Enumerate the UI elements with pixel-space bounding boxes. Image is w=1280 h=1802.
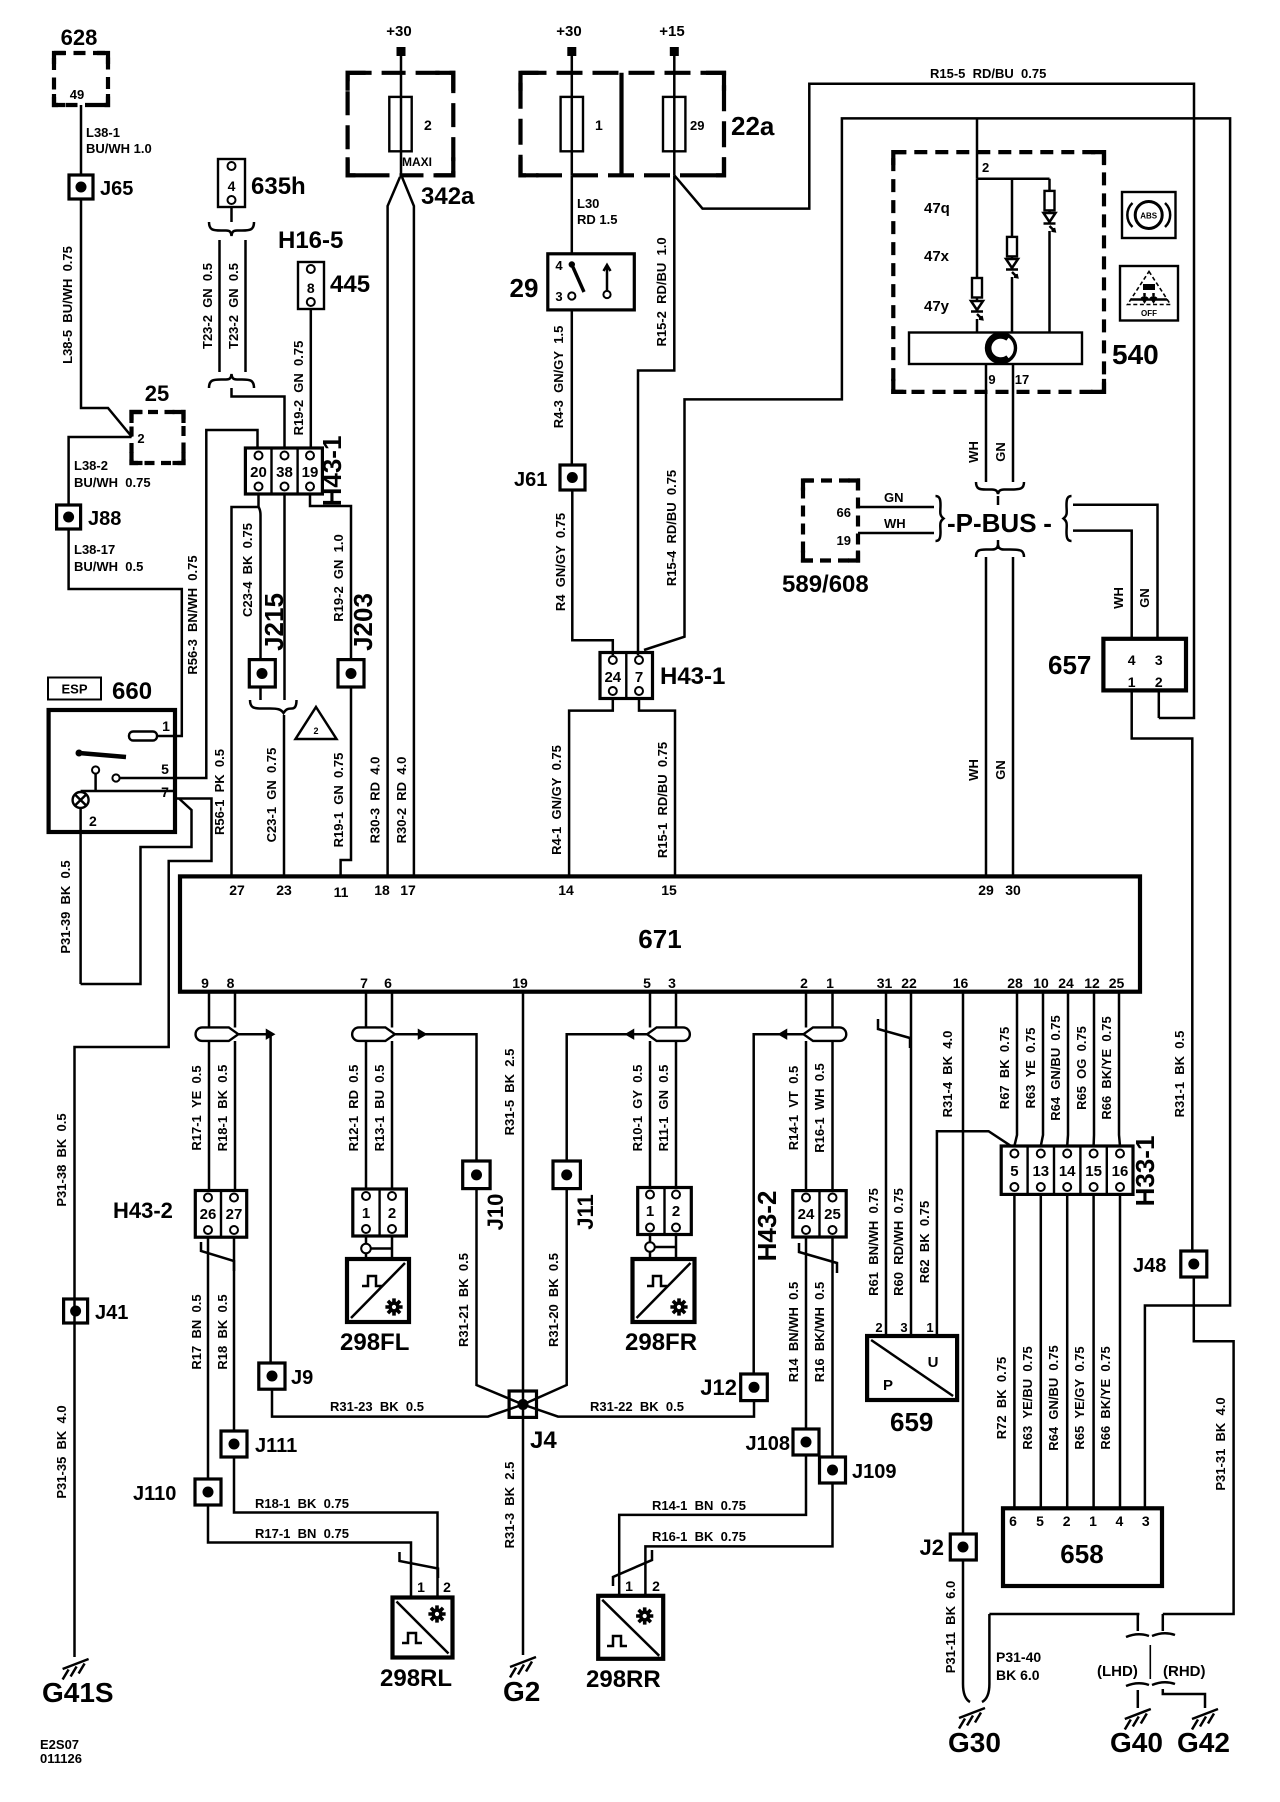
svg-text:+30: +30	[386, 23, 411, 40]
wire R56-3 BN/WH 0.75 from 660 pin 5 to H43-1 pin 20	[175, 430, 258, 778]
wire R56-1 PK 0.5 from H43-1 pin 20 to 671 pin 27	[212, 494, 259, 876]
svg-text:635h: 635h	[251, 173, 306, 200]
svg-text:BU/WH 0.5: BU/WH 0.5	[74, 559, 143, 574]
junction J12	[700, 1374, 767, 1401]
svg-text:R11-1 GN 0.5: R11-1 GN 0.5	[656, 1065, 671, 1152]
svg-text:R18 BK 0.5: R18 BK 0.5	[215, 1294, 230, 1369]
svg-text:26: 26	[200, 1206, 217, 1223]
connector 657	[1048, 639, 1186, 691]
svg-text:25: 25	[1109, 975, 1125, 991]
svg-text:2: 2	[800, 975, 808, 991]
wire from 657 pin 2 joining R15-5	[1158, 690, 1161, 718]
svg-text:2: 2	[137, 431, 144, 446]
wire GN from 589/608 pin 66 to P-BUS	[858, 490, 934, 507]
svg-text:1: 1	[162, 718, 170, 734]
+30 terminal above fuse 342a	[386, 23, 411, 73]
svg-text:4: 4	[555, 258, 563, 273]
svg-text:011126: 011126	[40, 1751, 82, 1766]
svg-text:540: 540	[1112, 339, 1159, 370]
svg-text:J41: J41	[95, 1302, 128, 1324]
bus capsule on pins 2/1	[804, 1027, 847, 1041]
connector H43-1 (24|7)	[600, 653, 725, 699]
svg-text:1: 1	[1128, 674, 1136, 690]
wire R16-1 BK 0.75 from J109 to 298RR pin 2	[645, 1483, 832, 1596]
ESP switch 660 box	[49, 710, 175, 832]
svg-text:27: 27	[229, 882, 245, 898]
bus capsule on pins 9/8	[196, 1027, 239, 1041]
svg-text:R10-1 GY 0.5: R10-1 GY 0.5	[630, 1065, 645, 1152]
svg-text:R16 BK/WH 0.5: R16 BK/WH 0.5	[812, 1282, 827, 1382]
svg-text:R30-3 RD 4.0: R30-3 RD 4.0	[368, 757, 383, 844]
svg-text:R61 BN/WH 0.75: R61 BN/WH 0.75	[866, 1188, 881, 1296]
wire R15-2 RD/BU 1.0 from fuse 29 to H43-1 pin 7	[638, 175, 674, 655]
svg-text:L38-5 BU/WH 0.75: L38-5 BU/WH 0.75	[60, 246, 75, 364]
wire R16 BK/WH 0.5 from H43-2 pin 25 to J109	[812, 1237, 833, 1457]
svg-text:13: 13	[1032, 1163, 1049, 1180]
wire R31-20 branch from capsule to J11	[567, 1031, 647, 1161]
svg-text:GN: GN	[993, 442, 1008, 462]
svg-text:BU/WH 0.75: BU/WH 0.75	[74, 475, 151, 490]
svg-text:5: 5	[643, 975, 651, 991]
svg-text:J48: J48	[1133, 1255, 1166, 1277]
svg-text:5: 5	[1010, 1163, 1018, 1180]
svg-text:H43-2: H43-2	[113, 1198, 173, 1223]
svg-text:R31-21 BK 0.5: R31-21 BK 0.5	[456, 1253, 471, 1347]
svg-text:R17-1 YE 0.5: R17-1 YE 0.5	[189, 1065, 204, 1150]
wire from 671 pin 8	[234, 992, 237, 1191]
svg-text:J110: J110	[133, 1483, 176, 1505]
svg-text:30: 30	[1005, 882, 1021, 898]
svg-text:658: 658	[1060, 1539, 1103, 1569]
wheel sensor 298RR	[586, 1578, 663, 1693]
junction J111	[221, 1431, 297, 1457]
wheel sensor 298FR	[625, 1259, 697, 1356]
svg-text:J9: J9	[291, 1367, 313, 1389]
svg-text:R14-1 BN 0.75: R14-1 BN 0.75	[652, 1498, 746, 1513]
svg-text:7: 7	[360, 975, 368, 991]
wire R14 BN/WH 0.5 from H43-2 pin 24 to J108	[786, 1237, 806, 1429]
wire C23-1 GN 0.75 to 671 pin 23	[264, 715, 284, 876]
svg-text:2: 2	[89, 813, 97, 829]
svg-text:R4 GN/GY 0.75: R4 GN/GY 0.75	[553, 513, 568, 611]
svg-text:R64 GN/BU 0.75: R64 GN/BU 0.75	[1048, 1015, 1063, 1121]
wire R17-1 BN 0.75 from J110 to 298RL pin 1	[208, 1505, 411, 1598]
junction J11	[553, 1161, 598, 1230]
svg-text:L38-2: L38-2	[74, 458, 108, 473]
svg-text:23: 23	[276, 882, 292, 898]
svg-text:15: 15	[661, 882, 677, 898]
svg-text:2: 2	[652, 1578, 660, 1594]
wire R15-1 RD/BU 0.75 from H43-1 pin 7 to 671 pin 15	[639, 699, 675, 877]
labels 47q 47x 47y	[924, 200, 950, 315]
+30 terminal above fuse 22a/1	[556, 23, 581, 73]
svg-text:2: 2	[875, 1320, 882, 1335]
svg-text:J11: J11	[573, 1194, 598, 1230]
svg-text:49: 49	[70, 87, 84, 102]
svg-text:16: 16	[953, 975, 969, 991]
warning triangle note 2	[296, 707, 337, 739]
wire P31-40 BK 6.0 from G30 to LHD fork	[982, 1614, 1139, 1702]
svg-text:25: 25	[824, 1206, 841, 1223]
svg-text:7: 7	[161, 784, 169, 800]
LHD/RHD alternative fork	[1097, 1614, 1206, 1708]
wire R17 BN 0.5 from H43-2 pin 26 to J110	[189, 1237, 208, 1479]
svg-text:27: 27	[226, 1206, 243, 1223]
svg-text:R31-20 BK 0.5: R31-20 BK 0.5	[546, 1253, 561, 1347]
svg-text:342a: 342a	[421, 183, 475, 210]
ground G42	[1177, 1709, 1230, 1758]
wire from 671 pin 5	[649, 992, 652, 1188]
svg-text:+15: +15	[659, 23, 684, 40]
svg-text:ESP: ESP	[61, 682, 87, 697]
svg-text:R15-2 RD/BU 1.0: R15-2 RD/BU 1.0	[654, 237, 669, 346]
wire R15-5 RD/BU 0.75 from fuse 29 to 657 pin 2	[674, 66, 1194, 718]
svg-text:1: 1	[1089, 1513, 1097, 1529]
svg-text:2: 2	[424, 117, 432, 133]
svg-text:445: 445	[330, 271, 370, 298]
wire WH from P-BUS to 671 pin 29	[966, 557, 986, 876]
svg-text:2: 2	[313, 726, 318, 736]
lamp branch 47y (left)	[971, 179, 983, 333]
svg-text:BK 6.0: BK 6.0	[996, 1667, 1040, 1683]
svg-text:R65 YE/GY 0.75: R65 YE/GY 0.75	[1072, 1346, 1087, 1449]
svg-text:17: 17	[1015, 372, 1029, 387]
variant slash below H43-2 right	[799, 1243, 837, 1273]
svg-text:R16-1 BK 0.75: R16-1 BK 0.75	[652, 1529, 746, 1544]
svg-text:29: 29	[510, 273, 539, 303]
ABS indicator icon	[1122, 192, 1176, 238]
connector H43-1 (20|38|19)	[245, 436, 347, 507]
svg-text:R31-23 BK 0.5: R31-23 BK 0.5	[330, 1399, 424, 1414]
svg-text:1: 1	[926, 1320, 933, 1335]
svg-text:12: 12	[1084, 975, 1100, 991]
svg-text:2: 2	[1063, 1513, 1071, 1529]
wire R19-2 GN 1.0 from H43-1 pin 19 to J203	[310, 494, 351, 660]
svg-text:29: 29	[690, 118, 704, 133]
wire R31-23 BK 0.5 from J9 to J4	[272, 1389, 523, 1416]
wire R31-1 BK 0.5 from 657 pin 1 to J48	[1132, 690, 1193, 1251]
svg-text:628: 628	[61, 25, 98, 50]
svg-text:2: 2	[672, 1203, 680, 1220]
svg-text:R31-22 BK 0.5: R31-22 BK 0.5	[590, 1399, 684, 1414]
junction J9	[259, 1363, 313, 1389]
wire from 671 pin 6	[391, 992, 394, 1189]
wires from 671 pins 28/10/24/12/25 to H33-1	[997, 992, 1120, 1146]
svg-text:R56-3 BN/WH 0.75: R56-3 BN/WH 0.75	[185, 555, 200, 674]
wire from 671 pin 9	[208, 992, 211, 1191]
svg-text:R19-1 GN 0.75: R19-1 GN 0.75	[331, 753, 346, 848]
svg-text:11: 11	[334, 884, 349, 900]
svg-text:589/608: 589/608	[782, 571, 869, 598]
ignition switch 29	[510, 254, 635, 310]
wire P31-11 BK 6.0 from J2 to G30	[943, 1560, 970, 1702]
wire R19-2 GN 0.75 from 445 to H43-1 pin 19	[291, 309, 311, 448]
bus capsule on pins 7/6	[352, 1027, 395, 1041]
svg-text:R19-2 GN 0.75: R19-2 GN 0.75	[291, 341, 306, 436]
wire R31-21 BK 0.5 from J10 to J4	[456, 1189, 523, 1405]
wire L30 RD 1.5 from fuse 1 to switch 29	[572, 175, 618, 254]
svg-text:L30: L30	[577, 196, 599, 211]
svg-text:47y: 47y	[924, 298, 950, 315]
svg-text:1: 1	[625, 1578, 633, 1594]
svg-text:R14 BN/WH 0.5: R14 BN/WH 0.5	[786, 1282, 801, 1382]
connector 445	[298, 262, 370, 309]
wire GN from 540 pin 17	[993, 364, 1013, 482]
svg-text:16: 16	[1112, 1163, 1129, 1180]
svg-text:ABS: ABS	[1140, 212, 1158, 221]
svg-text:GN: GN	[993, 760, 1008, 780]
wire P31-39 BK 0.5 from 660 pin 2	[58, 808, 81, 984]
svg-text:+30: +30	[556, 23, 581, 40]
svg-text:2: 2	[982, 160, 989, 175]
ground G2	[503, 1657, 540, 1707]
svg-text:6: 6	[1009, 1513, 1017, 1529]
svg-text:R12-1 RD 0.5: R12-1 RD 0.5	[346, 1065, 361, 1152]
wire R15-4 RD/BU 0.75 from H43-1 pin 7 to 658 pin 3	[644, 118, 1230, 1508]
svg-text:5: 5	[1036, 1513, 1044, 1529]
node P-BUS	[936, 496, 1072, 541]
svg-text:1: 1	[826, 975, 834, 991]
pressure sensor 659	[867, 1320, 957, 1437]
svg-text:47q: 47q	[924, 200, 950, 217]
svg-text:298FL: 298FL	[340, 1329, 409, 1356]
wheel sensor 298FL	[340, 1259, 409, 1356]
wire R60 RD/WH 0.75 from 671 pin 22 to 659 pin 3	[891, 992, 911, 1336]
junction J110	[133, 1479, 221, 1505]
svg-text:P31-39 BK 0.5: P31-39 BK 0.5	[58, 860, 73, 953]
svg-text:WH: WH	[966, 759, 981, 781]
lamp branch 47q (right)	[1044, 179, 1056, 333]
junction J215	[249, 593, 289, 700]
svg-text:22a: 22a	[731, 111, 775, 141]
wire R31-21 branch from capsule to J10	[395, 1031, 477, 1161]
wire R18-1 BK 0.75 from J111 to 298RL pin 2	[234, 1457, 438, 1598]
svg-text:29: 29	[978, 882, 994, 898]
svg-text:L38-17: L38-17	[74, 542, 115, 557]
svg-text:P31-11 BK 6.0: P31-11 BK 6.0	[943, 1581, 958, 1674]
svg-text:24: 24	[604, 669, 621, 686]
wire R14-1 BN 0.75 from J108 to 298RR pin 1	[619, 1455, 806, 1596]
svg-text:R15-5 RD/BU 0.75: R15-5 RD/BU 0.75	[930, 66, 1046, 81]
wire L38-5 BU/WH 0.75 from J65 to connector 25	[60, 199, 132, 437]
svg-text:3: 3	[1155, 652, 1163, 668]
wires from H33-1 to 658	[994, 1194, 1120, 1508]
wire L38-17 BU/WH 0.5 from J88 to 660 pin 1	[69, 529, 182, 736]
P-BUS dashed link	[997, 496, 1000, 549]
variant slash on wires 31/22	[878, 1019, 910, 1048]
svg-text:R66 BK/YE 0.75: R66 BK/YE 0.75	[1098, 1346, 1113, 1449]
svg-text:-P-BUS: -P-BUS	[947, 508, 1037, 538]
svg-text:P31-31 BK 4.0: P31-31 BK 4.0	[1213, 1397, 1228, 1490]
svg-text:E2S07: E2S07	[40, 1737, 79, 1752]
svg-text:C23-4 BK 0.75: C23-4 BK 0.75	[240, 523, 255, 617]
svg-text:31: 31	[877, 975, 893, 991]
ground G40	[1110, 1709, 1163, 1758]
wire R31-5 BK 2.5 from 671 pin 19 through J4 to G2	[502, 992, 523, 1655]
junction J65	[69, 175, 133, 200]
svg-text:298FR: 298FR	[625, 1329, 697, 1356]
variant slash below H43-2	[201, 1242, 234, 1271]
svg-text:WH: WH	[884, 516, 906, 531]
wire WH from 589/608 pin 19 to P-BUS	[858, 516, 934, 533]
wire from 671 pin 3	[675, 992, 678, 1188]
wire from 671 pin 7	[365, 992, 368, 1189]
svg-text:22: 22	[901, 975, 917, 991]
wire R19-1 GN 0.75 from J203 to 671 pin 11	[331, 687, 351, 876]
variant slash at 298RL	[400, 1552, 439, 1578]
svg-text:28: 28	[1007, 975, 1023, 991]
svg-text:U: U	[928, 1354, 939, 1371]
svg-text:H43-1: H43-1	[660, 663, 725, 690]
component 589/608 (dashed box)	[782, 481, 869, 599]
svg-text:R62 BK 0.75: R62 BK 0.75	[917, 1201, 932, 1283]
svg-text:H43-1: H43-1	[317, 436, 347, 507]
svg-text:J65: J65	[100, 178, 133, 200]
junction J41	[64, 1299, 129, 1324]
ground G30	[948, 1708, 1001, 1758]
bus capsule on pins 5/3	[647, 1027, 690, 1041]
svg-text:R31-3 BK 2.5: R31-3 BK 2.5	[502, 1462, 517, 1549]
svg-text:4: 4	[228, 178, 236, 194]
svg-text:4: 4	[1128, 652, 1136, 668]
svg-text:14: 14	[558, 882, 574, 898]
svg-text:24: 24	[1058, 975, 1074, 991]
pump bar inside 540	[909, 333, 1082, 388]
svg-text:R15-1 RD/BU 0.75: R15-1 RD/BU 0.75	[655, 742, 670, 858]
wire from pair to H43-1 pin 38	[232, 388, 285, 448]
svg-text:659: 659	[890, 1407, 933, 1437]
svg-text:5: 5	[161, 761, 169, 777]
connector 635h	[218, 159, 306, 207]
wire GN from P-BUS to 671 pin 30	[993, 557, 1013, 876]
svg-text:GN: GN	[1137, 588, 1152, 608]
svg-text:1: 1	[417, 1579, 425, 1595]
component 25 (dashed box)	[132, 381, 184, 463]
svg-text:J111: J111	[255, 1435, 297, 1457]
wire P31-31 BK 4.0 from J48 to RHD fork	[1163, 1277, 1234, 1614]
wire WH from P-BUS to 657 pin 4	[1073, 531, 1132, 639]
svg-text:19: 19	[837, 533, 851, 548]
svg-text:J203: J203	[348, 593, 378, 651]
svg-text:G2: G2	[503, 1676, 540, 1707]
540 internal bus	[977, 177, 1050, 180]
wire R31-23 branch from capsule to J9	[238, 1031, 273, 1363]
svg-text:25: 25	[145, 381, 169, 406]
298FL pigtail	[361, 1236, 392, 1259]
svg-text:H16-5: H16-5	[278, 227, 343, 254]
svg-text:3: 3	[1142, 1513, 1150, 1529]
svg-text:R19-2 GN 1.0: R19-2 GN 1.0	[331, 534, 346, 621]
svg-text:J215: J215	[259, 593, 289, 651]
svg-text:C23-1 GN 0.75: C23-1 GN 0.75	[264, 748, 279, 843]
svg-text:10: 10	[1033, 975, 1049, 991]
fuse box 22a	[521, 73, 775, 176]
svg-text:3: 3	[900, 1320, 907, 1335]
svg-text:BU/WH 1.0: BU/WH 1.0	[86, 141, 152, 156]
svg-text:R4-1 GN/GY 0.75: R4-1 GN/GY 0.75	[549, 745, 564, 855]
svg-text:14: 14	[1059, 1163, 1076, 1180]
ground wire from 671 pin 16 to J2 and G30	[940, 992, 963, 1534]
svg-text:R31-5 BK 2.5: R31-5 BK 2.5	[502, 1049, 517, 1136]
svg-text:R65 OG 0.75: R65 OG 0.75	[1074, 1026, 1089, 1110]
svg-text:R30-2 RD 4.0: R30-2 RD 4.0	[394, 757, 409, 844]
svg-text:R64 GN/BU 0.75: R64 GN/BU 0.75	[1046, 1345, 1061, 1451]
wire R31-20 BK 0.5 from J11 to J4	[523, 1189, 567, 1405]
junction J108	[746, 1429, 820, 1455]
wire linking 660 pin 2 to pin 7	[81, 799, 192, 985]
svg-text:2: 2	[388, 1205, 396, 1222]
ABS control module 671	[180, 876, 1140, 991]
svg-text:R18-1 BK 0.5: R18-1 BK 0.5	[215, 1065, 230, 1152]
wire WH from 540 pin 9	[966, 364, 986, 482]
wire R31-22 BK 0.5 from J12 to J4	[523, 1399, 754, 1417]
svg-text:P31-38 BK 0.5: P31-38 BK 0.5	[54, 1113, 69, 1206]
svg-text:J2: J2	[920, 1535, 944, 1560]
svg-text:R67 BK 0.75: R67 BK 0.75	[997, 1027, 1012, 1109]
svg-text:G41S: G41S	[42, 1677, 114, 1708]
svg-text:GN: GN	[884, 490, 904, 505]
svg-text:6: 6	[384, 975, 392, 991]
wire R4-1 GN/GY 0.75 from H43-1 pin 24 to 671 pin 14	[549, 699, 613, 877]
svg-text:R63 YE 0.75: R63 YE 0.75	[1023, 1028, 1038, 1109]
wire R18 BK 0.5 from H43-2 pin 27 to J111	[215, 1237, 234, 1431]
svg-text:J4: J4	[530, 1427, 557, 1454]
ground wire from 660 pin 7 to G41S	[75, 799, 212, 1658]
wheel sensor 298RL	[380, 1579, 453, 1692]
svg-text:R15-4 RD/BU 0.75: R15-4 RD/BU 0.75	[664, 470, 679, 586]
svg-text:T23-2 GN 0.5: T23-2 GN 0.5	[226, 263, 241, 349]
svg-text:47x: 47x	[924, 248, 950, 265]
svg-text:G30: G30	[948, 1727, 1001, 1758]
ground G41S	[42, 1659, 114, 1708]
wire R4 GN/GY 0.75 from J61 to H43-1 pin 24	[553, 490, 613, 655]
wire GN from P-BUS to 657 pin 3	[1073, 505, 1158, 639]
connector H33-1 (5|13|14|15|16)	[1001, 1136, 1160, 1207]
svg-text:1: 1	[646, 1203, 654, 1220]
svg-text:9: 9	[201, 975, 209, 991]
junction J203	[338, 593, 378, 687]
thick wire arrow from 342a fuse 2	[388, 177, 414, 876]
connector H43-2 (24|25)	[752, 1191, 846, 1262]
P-BUS brace upper	[976, 482, 1024, 494]
junction J88	[57, 505, 122, 530]
svg-text:WH: WH	[1111, 587, 1126, 609]
svg-text:-: -	[1036, 508, 1052, 538]
ESP switch 660 label	[48, 678, 152, 706]
shielded pair below H43-1 pins 20/38	[240, 494, 297, 713]
svg-text:1: 1	[362, 1205, 370, 1222]
svg-text:R13-1 BU 0.5: R13-1 BU 0.5	[372, 1065, 387, 1152]
ABS OFF indicator icon	[1120, 266, 1178, 321]
junction J2	[920, 1534, 977, 1560]
control module 540 (dashed box)	[893, 152, 1158, 392]
svg-text:H43-2: H43-2	[752, 1191, 782, 1262]
svg-text:8: 8	[307, 280, 315, 296]
component 628 (dashed box)	[54, 25, 108, 105]
svg-text:1: 1	[595, 117, 603, 133]
lamp branch 47x (middle)	[1006, 179, 1018, 333]
svg-text:T23-2 GN 0.5: T23-2 GN 0.5	[200, 263, 215, 349]
wire R4-3 GN/GY 1.5 from switch 29 pin 3 to J61	[551, 310, 572, 465]
svg-text:J61: J61	[514, 469, 547, 491]
svg-text:R17-1 BN 0.75: R17-1 BN 0.75	[255, 1526, 349, 1541]
svg-text:P: P	[883, 1377, 893, 1394]
P-BUS brace lower	[976, 545, 1024, 557]
svg-text:3: 3	[668, 975, 676, 991]
svg-text:R60 RD/WH 0.75: R60 RD/WH 0.75	[891, 1188, 906, 1296]
svg-text:R4-3 GN/GY 1.5: R4-3 GN/GY 1.5	[551, 326, 566, 429]
svg-text:J88: J88	[88, 508, 121, 530]
